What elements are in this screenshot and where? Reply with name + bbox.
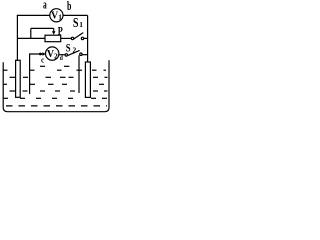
current arrow into V2: [42, 52, 45, 56]
wire: top horizontal left of V1: [17, 14, 50, 16]
wire: left vertical (a-electrode feed): [16, 15, 18, 60]
electrode rod d side: [78, 55, 80, 93]
wire: right vertical (b-electrode feed): [87, 15, 89, 62]
switch S1 contact right: [81, 37, 83, 39]
svg-text:S: S: [66, 43, 71, 55]
wire: top horizontal right of V1: [63, 14, 88, 16]
electrode plate right: [85, 62, 90, 97]
rheostat wiper arrow: [53, 28, 55, 31]
wire: V2 left with corner down to rod electrode c: [30, 54, 45, 94]
wire: wiper branch horizontal: [31, 27, 54, 29]
svg-text:2: 2: [54, 52, 58, 61]
switch S2 contact right: [80, 53, 82, 55]
wire: S1 to right vertical: [84, 37, 88, 39]
svg-text:c: c: [41, 55, 44, 64]
svg-text:2: 2: [73, 45, 77, 54]
voltmeter V2: [46, 47, 59, 60]
junction dot: [39, 53, 42, 56]
wire: S2 to right vertical: [82, 54, 88, 56]
wire: rheostat right to switch S1: [61, 37, 72, 39]
electrode plate left: [16, 60, 21, 97]
beaker tank: [3, 60, 109, 111]
svg-text:S: S: [73, 15, 79, 30]
wire: wiper branch vertical: [30, 28, 32, 38]
wire: lower horizontal from left vertical to rheostat: [17, 37, 45, 39]
wire: V2 right to switch S2: [59, 54, 65, 56]
rheostat slider box: [45, 35, 61, 42]
switch S2 contact left: [65, 54, 67, 56]
svg-text:1: 1: [58, 13, 62, 22]
svg-text:d: d: [60, 54, 63, 62]
svg-text:1: 1: [79, 20, 83, 29]
svg-text:a: a: [43, 0, 47, 11]
voltmeter V1: [50, 9, 63, 22]
switch S2 blade: [68, 50, 80, 55]
switch S1 blade: [74, 33, 84, 39]
svg-text:P: P: [58, 23, 63, 37]
liquid (dashes): [3, 66, 107, 106]
switch S1 contact left: [71, 37, 73, 39]
svg-text:b: b: [67, 0, 71, 13]
